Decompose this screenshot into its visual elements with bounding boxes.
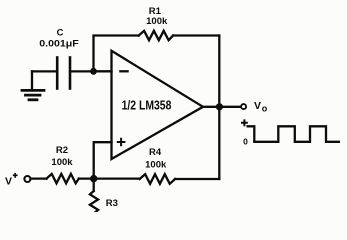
svg-text:V: V: [254, 100, 261, 112]
svg-text:0: 0: [243, 137, 248, 147]
svg-text:R4: R4: [149, 147, 162, 158]
svg-text:0.001μF: 0.001μF: [39, 39, 79, 50]
svg-text:100k: 100k: [145, 159, 167, 170]
svg-text:V: V: [5, 175, 12, 187]
svg-text:100k: 100k: [146, 16, 168, 27]
svg-text:100k: 100k: [51, 157, 73, 168]
svg-text:o: o: [262, 104, 268, 114]
svg-text:1/2 LM358: 1/2 LM358: [122, 98, 172, 112]
svg-text:R3: R3: [106, 198, 118, 209]
svg-text:R2: R2: [56, 145, 68, 156]
svg-text:C: C: [57, 28, 64, 39]
